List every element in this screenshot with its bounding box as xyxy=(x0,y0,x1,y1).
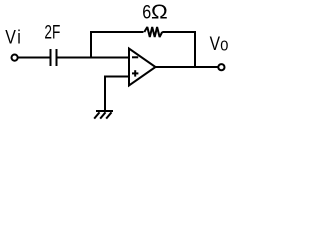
wire Vi terminal to capacitor xyxy=(18,57,50,59)
terminal V0 xyxy=(218,64,224,70)
wire feedback vertical right xyxy=(194,31,196,67)
wire capacitor to op-amp inverting input xyxy=(58,57,130,59)
wire op-amp output to V0 terminal xyxy=(156,66,219,68)
op-amp U1 xyxy=(129,49,156,86)
resistor R1 6ohm xyxy=(144,27,162,37)
op-amp non-inverting input marker (plus) xyxy=(132,70,138,76)
ground xyxy=(94,111,113,119)
svg-text:V: V xyxy=(5,26,16,48)
wire feedback top left xyxy=(90,31,144,33)
wire op-amp non-inverting input to ground xyxy=(105,77,129,112)
op-amp inverting input marker (minus) xyxy=(132,56,138,58)
svg-text:0: 0 xyxy=(220,38,228,54)
terminal Vi xyxy=(12,55,18,61)
capacitor C1 2F xyxy=(51,49,57,66)
svg-text:i: i xyxy=(17,26,21,48)
svg-text:2F: 2F xyxy=(44,21,60,43)
junction feedback tap / wire feedback vertical left xyxy=(90,31,92,59)
svg-text:6: 6 xyxy=(142,1,151,23)
wire feedback top right xyxy=(162,31,196,33)
svg-text:Ω: Ω xyxy=(151,2,168,24)
svg-text:V: V xyxy=(210,32,221,54)
